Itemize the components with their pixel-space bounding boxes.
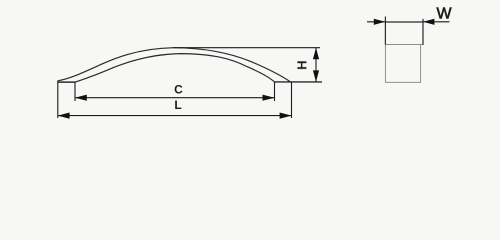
dimension C right arrowhead: [263, 95, 275, 101]
handle left foot base line: [57, 81, 75, 83]
svg-text:H: H: [294, 61, 309, 70]
dimension W right arrowhead (points left): [423, 19, 434, 25]
dimension W left line: [367, 21, 385, 23]
dimension L right arrowhead: [280, 113, 292, 119]
svg-text:C: C: [174, 83, 183, 97]
dimension C left arrowhead: [75, 95, 87, 101]
dimension C line: [75, 97, 275, 99]
svg-text:L: L: [174, 98, 181, 112]
dimension W left arrowhead (points right): [374, 19, 385, 25]
dimension H line: [315, 48, 317, 82]
C left extension line: [74, 82, 76, 101]
side view: grip bar cross-section box (dark): [385, 17, 423, 46]
dimension W right line: [423, 21, 450, 23]
handle right foot base line + H bottom extension line: [275, 81, 323, 83]
dimension L line: [58, 115, 292, 117]
L left extension line: [57, 82, 59, 118]
handle front view: top outer curve: [58, 48, 291, 82]
svg-text:W: W: [436, 6, 452, 23]
dimension H bottom arrowhead: [313, 70, 319, 82]
side view: foot box (light gray): [385, 45, 422, 83]
handle left end face edge: [57, 81, 59, 83]
C right extension line: [274, 82, 276, 101]
dimension L left arrowhead: [58, 113, 70, 119]
L right extension line: [291, 82, 293, 118]
dimension H top arrowhead: [313, 48, 319, 60]
handle front view: inner (bottom) curve of grip: [75, 54, 275, 83]
H top extension line (tangent at arch apex): [173, 47, 320, 49]
